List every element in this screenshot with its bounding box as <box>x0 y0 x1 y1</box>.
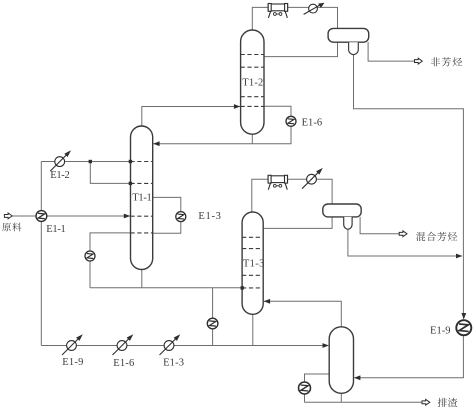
wire vessel bottom header <box>305 401 342 403</box>
flow symbol E1-9 bottom <box>62 334 83 355</box>
open arrow slag discharge <box>422 399 430 405</box>
node T1-3 feed junction <box>241 286 244 289</box>
reflux drum V-2 <box>328 28 369 54</box>
heater on stripping line <box>207 318 218 329</box>
arrow into T1-1 solvent return <box>153 141 159 146</box>
column T1-3 <box>242 212 264 314</box>
svg-text:E1-9: E1-9 <box>62 357 83 368</box>
label yuanliao feed <box>2 223 21 232</box>
label mixed aromatics <box>416 232 457 241</box>
wire branch to T1-1 tray2 <box>90 162 130 184</box>
svg-text:E1-3: E1-3 <box>198 211 221 222</box>
svg-text:E1-1: E1-1 <box>46 224 66 235</box>
reboiler circulator of vessel <box>299 382 311 394</box>
wire T1-2 overhead <box>252 7 337 30</box>
wire T1-2 bottoms outlet <box>251 134 253 144</box>
column T1-2 <box>241 30 264 134</box>
vessel D1 flash drum <box>329 327 353 394</box>
svg-text:T1-3: T1-3 <box>243 259 265 270</box>
arrow into T1-3 from vessel <box>264 299 270 304</box>
flow symbol on T1-3 overhead <box>302 168 323 189</box>
svg-text:E1-9: E1-9 <box>430 326 451 337</box>
wire T1-1 overhead to T1-2 <box>142 107 240 127</box>
air cooler on T1-3 overhead <box>268 175 287 189</box>
air cooler on T1-2 overhead <box>268 4 287 18</box>
arrow T1-3 boot join <box>456 254 462 259</box>
node tray1 junction <box>129 160 132 163</box>
svg-text:E1-3: E1-3 <box>163 358 184 369</box>
heat exchanger E1-6 loop <box>286 116 296 126</box>
open arrow mixed aromatics <box>399 231 407 237</box>
wire feed line to T1-1 <box>12 215 131 217</box>
wire branch down to stripping line <box>212 288 214 346</box>
wire E1-2 line to T1-1 tray1 <box>41 161 130 163</box>
flow symbol E1-2 <box>50 150 71 171</box>
arrow into vessel feed <box>323 343 329 348</box>
arrow into T1-1 feed <box>124 214 130 219</box>
wire vessel vapor return to T1-3 <box>264 301 341 327</box>
wire E1-3 side loop <box>153 197 181 233</box>
label non-aromatics <box>431 57 462 66</box>
arrow into vessel from E1-9 <box>354 375 360 380</box>
label slag discharge <box>438 398 458 407</box>
heat exchanger E1-1 <box>36 211 47 222</box>
svg-text:T1-1: T1-1 <box>132 193 152 204</box>
wire T1-3 bottoms outlet <box>252 313 254 346</box>
wire T1-1 bottoms outlet <box>141 269 143 288</box>
wire mixed aromatics product <box>360 217 400 234</box>
flow symbol E1-3 bottom <box>160 334 181 355</box>
wire T1-2 boot to E1-9 <box>354 54 464 318</box>
wire vessel bottoms outlet <box>340 393 342 402</box>
wire E1-9 to vessel <box>355 335 464 377</box>
wire T1-3 reflux <box>263 217 332 229</box>
wire slag discharge line <box>341 401 422 403</box>
wire T1-3 overhead <box>252 179 332 212</box>
open arrow feed inlet <box>4 213 12 219</box>
reboiler circulator of T1-1 <box>85 251 95 261</box>
svg-text:T1-2: T1-2 <box>242 77 263 88</box>
svg-text:E1-6: E1-6 <box>113 358 134 369</box>
arrow into T1-2 feed <box>234 104 240 109</box>
wire T1-1 reboiler loop <box>90 233 131 288</box>
flow symbol E1-6 bottom <box>113 334 134 355</box>
flow symbol on T1-2 overhead <box>304 3 325 15</box>
wire E1-6 loop and T1-2 bottoms return <box>154 106 292 144</box>
column T1-1 <box>131 126 153 270</box>
heat exchanger E1-3 loop <box>176 212 186 222</box>
open arrow non-aromatics <box>415 58 423 64</box>
wire non-aromatics product <box>368 42 415 61</box>
svg-text:E1-6: E1-6 <box>302 118 323 129</box>
wire T1-2 reflux <box>264 42 338 57</box>
arrow into E1-9 <box>461 313 466 319</box>
wire vessel reboiler loop <box>305 374 330 402</box>
reflux drum V-3 <box>323 204 361 229</box>
wire T1-1 bottoms header <box>90 287 242 289</box>
svg-text:E1-2: E1-2 <box>50 170 69 181</box>
heat exchanger E1-9 <box>456 320 471 335</box>
wire bottom header line <box>41 345 327 347</box>
wire T1-3 boot line <box>348 230 462 257</box>
node tray2 junction <box>129 182 132 185</box>
wire vertical solvent line x41 <box>40 162 42 346</box>
node branch junction <box>89 160 92 163</box>
